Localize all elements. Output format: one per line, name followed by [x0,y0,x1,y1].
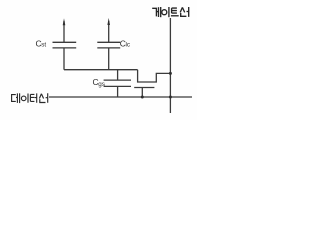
svg-text:lc: lc [126,42,131,49]
svg-text:gs: gs [98,81,105,88]
svg-text:st: st [41,42,46,49]
